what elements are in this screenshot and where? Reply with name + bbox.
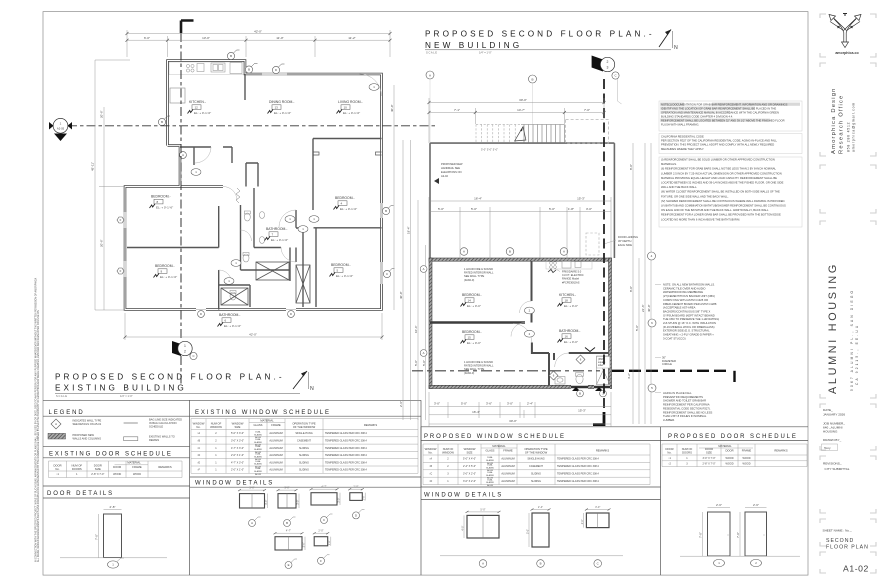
svg-text:2'-0": 2'-0" bbox=[318, 529, 323, 533]
svg-text:B: B bbox=[230, 54, 232, 58]
svg-text:2'-4": 2'-4" bbox=[527, 402, 533, 406]
svg-text:LIVING ROOM.-: LIVING ROOM.- bbox=[338, 100, 363, 104]
fire wall notes bbox=[464, 267, 584, 375]
svg-text:OF THE WINDOW: OF THE WINDOW bbox=[525, 450, 548, 454]
svg-text:5067 ALUMNI PL., SAN DIEGO: 5067 ALUMNI PL., SAN DIEGO bbox=[850, 289, 854, 391]
svg-text:○E: ○E bbox=[197, 461, 201, 464]
svg-text:FRAME: FRAME bbox=[132, 465, 142, 469]
svg-text:THE CBU TO PRESERVE THE 1-HR R: THE CBU TO PRESERVE THE 1-HR RATING) bbox=[663, 317, 719, 321]
svg-text:F: F bbox=[320, 559, 322, 563]
svg-text:2'-6": 2'-6" bbox=[716, 503, 722, 507]
svg-text:NEW BUILDING: NEW BUILDING bbox=[425, 41, 522, 50]
door number ovals bbox=[191, 84, 379, 285]
svg-text:13'-0": 13'-0" bbox=[202, 36, 210, 40]
svg-text:3'-0" X 3'-0": 3'-0" X 3'-0" bbox=[231, 439, 244, 442]
existing plan dimension lines top bbox=[127, 30, 390, 57]
svg-text:1'-0": 1'-0" bbox=[362, 495, 366, 500]
svg-text:Tony: Tony bbox=[824, 446, 831, 450]
svg-text:CITY SUBMITTAL: CITY SUBMITTAL bbox=[825, 467, 850, 471]
svg-text:toilet: toilet bbox=[598, 364, 603, 367]
new plan top dims bbox=[429, 98, 604, 143]
window/door openings in bottom wall bbox=[571, 385, 588, 389]
svg-text:4'-7": 4'-7" bbox=[286, 529, 291, 533]
grid bubbles top bbox=[426, 71, 537, 83]
svg-text:○B: ○B bbox=[197, 439, 201, 442]
svg-text:3'-0": 3'-0" bbox=[507, 402, 513, 406]
svg-text:○A: ○A bbox=[429, 458, 433, 461]
svg-text:EXISTING DOOR SCHEDULE: EXISTING DOOR SCHEDULE bbox=[49, 451, 173, 457]
svg-text:5'-0" 5'-0" 5'-0": 5'-0" 5'-0" 5'-0" bbox=[481, 148, 498, 152]
svg-text:EL: + 0'-0": EL: + 0'-0" bbox=[467, 304, 481, 308]
svg-text:5'-0": 5'-0" bbox=[249, 486, 254, 490]
svg-text:FRAME: FRAME bbox=[271, 423, 281, 427]
svg-text:ALUMINUM: ALUMINUM bbox=[269, 469, 282, 472]
door detail diagram bbox=[60, 505, 167, 568]
svg-text:SIZE: SIZE bbox=[95, 467, 101, 471]
svg-text:1'-8": 1'-8" bbox=[568, 207, 574, 211]
svg-text:5'-0" X 4'-0": 5'-0" X 4'-0" bbox=[463, 458, 476, 461]
north arrow new bbox=[659, 30, 671, 48]
svg-text:B: B bbox=[385, 209, 387, 213]
svg-text:2'-0" X 1'-0": 2'-0" X 1'-0" bbox=[231, 454, 244, 457]
svg-text:MEASURES WHERE THEY APPLY.: MEASURES WHERE THEY APPLY. bbox=[661, 147, 704, 151]
match line existing (vertical centerline x=181) bbox=[172, 21, 197, 387]
svg-text:ON EACH AND OF THE BATHTUB AND: ON EACH AND OF THE BATHTUB AND THE BACK … bbox=[661, 208, 769, 212]
svg-text:2'-0": 2'-0" bbox=[353, 485, 358, 489]
svg-text:SIZE: SIZE bbox=[706, 450, 712, 454]
svg-text:WOOD: WOOD bbox=[742, 457, 750, 460]
svg-text:C: C bbox=[192, 354, 194, 358]
svg-text:SLIDING: SLIDING bbox=[299, 461, 309, 464]
svg-text:LUMBER 2.5 INCH BY 7.25-INCH A: LUMBER 2.5 INCH BY 7.25-INCH ACTUAL DIME… bbox=[661, 171, 782, 175]
svg-text:HANDRAIL SEE: HANDRAIL SEE bbox=[441, 166, 460, 170]
svg-text:13: 13 bbox=[275, 105, 279, 109]
svg-text:B: B bbox=[286, 521, 288, 525]
svg-text:FIBER-CEMENT BOARD PER ASTM C1: FIBER-CEMENT BOARD PER ASTM C1288 bbox=[663, 302, 717, 306]
svg-text:SHEET NAME : No._: SHEET NAME : No._ bbox=[823, 529, 852, 533]
proposed window detail diagrams bbox=[460, 507, 500, 538]
svg-text:1'-0": 1'-0" bbox=[327, 540, 331, 545]
svg-text:A2-02: A2-02 bbox=[441, 174, 448, 178]
new plan room labels bbox=[412, 56, 735, 425]
svg-text:4'-0": 4'-0" bbox=[460, 525, 464, 530]
svg-text:SLIDING: SLIDING bbox=[299, 469, 309, 472]
svg-text:LUMBER.: LUMBER. bbox=[663, 418, 675, 422]
svg-text:5'-0": 5'-0" bbox=[549, 207, 555, 211]
svg-text:A: A bbox=[182, 153, 184, 157]
svg-text:FLUSH WITH WALL FRAMING.: FLUSH WITH WALL FRAMING. bbox=[661, 122, 699, 126]
svg-text:DOORS: DOORS bbox=[72, 467, 82, 471]
svg-text:21'-6": 21'-6" bbox=[641, 304, 645, 312]
svg-text:3'-0": 3'-0" bbox=[301, 542, 305, 547]
svg-text:DOOR: DOOR bbox=[113, 465, 121, 469]
svg-text:SHOWER AND TOILET GRAB BAR: SHOWER AND TOILET GRAB BAR bbox=[663, 399, 706, 403]
svg-text:3: 3 bbox=[607, 66, 609, 70]
svg-text:LOCATED NO MORE THAN 6 INCH AB: LOCATED NO MORE THAN 6 INCH ABOVE THE BA… bbox=[661, 217, 740, 221]
svg-text:TEMPERED GLASS PER CRC 308.4: TEMPERED GLASS PER CRC 308.4 bbox=[325, 461, 367, 464]
svg-text:○C: ○C bbox=[197, 447, 201, 450]
svg-text:CERAMIC TILE OVER AND AUDIO: CERAMIC TILE OVER AND AUDIO bbox=[663, 286, 706, 290]
svg-text:PROPOSED NEW: PROPOSED NEW bbox=[441, 162, 463, 166]
closet notches bedroom 4 bbox=[313, 152, 382, 155]
svg-text:(D/AD-0): (D/AD-0) bbox=[464, 371, 474, 375]
svg-text:EACH SIDE: EACH SIDE bbox=[618, 243, 632, 247]
svg-text:GLAZED: GLAZED bbox=[486, 481, 495, 484]
svg-text:N: N bbox=[674, 45, 678, 51]
svg-text:#FCFE3062AS: #FCFE3062AS bbox=[562, 280, 580, 284]
svg-text:EL: + 0'-1'-6": EL: + 0'-1'-6" bbox=[271, 238, 288, 242]
svg-text:3'-0": 3'-0" bbox=[295, 500, 299, 505]
svg-text:(D/AD-0): (D/AD-0) bbox=[464, 278, 474, 282]
svg-text:SLIDING: SLIDING bbox=[299, 454, 309, 457]
svg-text:(II) REINFORCEMENT FOR GRAB BA: (II) REINFORCEMENT FOR GRAB BARS SHALL N… bbox=[661, 167, 776, 171]
svg-text:DUAL: DUAL bbox=[487, 464, 493, 467]
svg-text:A: A bbox=[423, 351, 425, 355]
svg-text:40'-0": 40'-0" bbox=[647, 304, 651, 312]
svg-text:15: 15 bbox=[468, 335, 472, 339]
horizontal centerline y=126 with section cut symbol bbox=[49, 118, 437, 141]
svg-text:GLAZED: GLAZED bbox=[486, 474, 495, 477]
note highlights bbox=[660, 103, 684, 106]
svg-text:C: C bbox=[386, 272, 388, 276]
svg-text:14'-7": 14'-7" bbox=[517, 108, 525, 112]
svg-text:D: D bbox=[275, 68, 277, 72]
svg-text:No.: No. bbox=[55, 467, 59, 471]
svg-text:WINDOW: WINDOW bbox=[442, 450, 454, 454]
door arcs bbox=[195, 74, 382, 283]
svg-text:BEDROOM.-: BEDROOM.- bbox=[155, 264, 175, 268]
svg-text:MATERIAL: MATERIAL bbox=[260, 418, 274, 422]
svg-text:DOOR: DOOR bbox=[725, 449, 733, 453]
svg-text:10: 10 bbox=[344, 105, 348, 109]
svg-text:GYPSUM BOARD (KEPT INTACT BEHI: GYPSUM BOARD (KEPT INTACT BEHIND bbox=[663, 313, 715, 317]
svg-text:7'-0": 7'-0" bbox=[584, 108, 590, 112]
proposed door detail diagrams bbox=[680, 503, 800, 556]
svg-text:SINGLE-HUNG: SINGLE-HUNG bbox=[527, 458, 544, 461]
title block cell corner marks bbox=[820, 14, 876, 573]
svg-text:GLAZED: GLAZED bbox=[486, 459, 495, 462]
svg-text:TEMPERED GLASS PER CRC 308.4: TEMPERED GLASS PER CRC 308.4 bbox=[325, 469, 367, 472]
svg-text:B: B bbox=[540, 562, 542, 566]
horizontal heavy dashed line y=371 bbox=[412, 370, 600, 372]
svg-text:2: 2 bbox=[607, 60, 609, 64]
svg-text:DINING ROOM.-: DINING ROOM.- bbox=[269, 100, 294, 104]
svg-text:BATHROOM.-: BATHROOM.- bbox=[559, 329, 580, 333]
svg-text:EXISTING BUILDING: EXISTING BUILDING bbox=[55, 384, 187, 393]
svg-text:FRIGIDAIRE 5.0: FRIGIDAIRE 5.0 bbox=[562, 270, 582, 274]
svg-text:11'-2": 11'-2" bbox=[348, 36, 355, 40]
svg-text:MATERIAL PROVIDING EQUAL HEIGH: MATERIAL PROVIDING EQUAL HEIGHT AND LOAD… bbox=[661, 176, 777, 180]
svg-text:B: B bbox=[579, 392, 581, 396]
svg-text:3'-0" X 7'-0": 3'-0" X 7'-0" bbox=[702, 457, 715, 460]
svg-text:○D: ○D bbox=[197, 454, 201, 457]
svg-text:FRAME: FRAME bbox=[503, 449, 513, 453]
svg-text:DUAL: DUAL bbox=[255, 438, 261, 441]
left margin disclaimer text (rotated) bbox=[35, 278, 41, 562]
svg-text:EXISTING WALLS TO: EXISTING WALLS TO bbox=[149, 435, 175, 439]
svg-text:5'-0" X 3'-0": 5'-0" X 3'-0" bbox=[231, 432, 244, 435]
svg-text:42'-0": 42'-0" bbox=[249, 332, 257, 336]
upper floor outline bbox=[430, 143, 614, 258]
svg-text:HOUSING: HOUSING bbox=[823, 429, 838, 433]
svg-text:20'-6": 20'-6" bbox=[100, 239, 104, 247]
kitchen counter band bbox=[169, 62, 244, 75]
svg-text:PREVENTION. THIS PROJECT SHALL: PREVENTION. THIS PROJECT SHALL ADOPT AND… bbox=[661, 143, 774, 147]
svg-text:LEGEND: LEGEND bbox=[49, 410, 85, 416]
svg-text:NOTE(1) DOCUMENTATION FOR GRAB: NOTE(1) DOCUMENTATION FOR GRAB BAR REINF… bbox=[661, 102, 788, 106]
interior walls new plan bbox=[430, 261, 609, 385]
svg-text:TEMPERED GLASS PER CRC 308.4: TEMPERED GLASS PER CRC 308.4 bbox=[557, 465, 599, 468]
svg-text:16'-4": 16'-4" bbox=[472, 410, 480, 414]
svg-text:DUAL: DUAL bbox=[255, 431, 261, 434]
svg-text:CU FT. ELECTRIC: CU FT. ELECTRIC bbox=[562, 273, 584, 277]
svg-text:IDENTIFYING THE LOCATION OF GR: IDENTIFYING THE LOCATION OF GRAB BAR REI… bbox=[661, 106, 776, 110]
svg-text:○D: ○D bbox=[429, 480, 433, 483]
svg-text:Research Office: Research Office bbox=[839, 95, 845, 154]
new plan bottom dims bbox=[429, 392, 611, 427]
check mark on bath wall bbox=[585, 348, 595, 352]
svg-text:MATERIAL: MATERIAL bbox=[492, 444, 506, 448]
svg-text:ALUMINUM: ALUMINUM bbox=[269, 432, 282, 435]
svg-text:EL: + 0'-1'-6": EL: + 0'-1'-6" bbox=[156, 205, 173, 209]
diamond tags bbox=[549, 355, 585, 380]
svg-text:5'-0": 5'-0" bbox=[635, 325, 639, 331]
svg-text:3'-0": 3'-0" bbox=[595, 505, 600, 509]
svg-text:D: D bbox=[290, 312, 292, 316]
stair treads solid (upper run) bbox=[521, 125, 564, 144]
svg-text:14: 14 bbox=[468, 298, 472, 302]
svg-text:○B: ○B bbox=[429, 465, 433, 468]
window tags below bottom wall bbox=[577, 390, 607, 397]
svg-text:1/4" = 1'-0": 1/4" = 1'-0" bbox=[479, 51, 492, 55]
svg-text:4'-7" X 3'-0": 4'-7" X 3'-0" bbox=[231, 447, 244, 450]
existing outer walls (double-line) bbox=[125, 61, 382, 310]
svg-text:ALUM: ALUM bbox=[487, 484, 493, 487]
svg-text:amorphica@gmail.com: amorphica@gmail.com bbox=[852, 102, 856, 152]
svg-text:WOOD: WOOD bbox=[742, 463, 750, 466]
svg-text:B: B bbox=[248, 68, 250, 72]
svg-text:IN BAG CALCULATION: IN BAG CALCULATION bbox=[149, 421, 177, 425]
svg-text:GLAZED: GLAZED bbox=[254, 448, 263, 451]
svg-text:4'-2": 4'-2" bbox=[627, 373, 631, 379]
bathroom fixtures new bbox=[555, 356, 610, 385]
svg-text:ALUMINUM: ALUMINUM bbox=[501, 473, 514, 476]
svg-text:SINGLE-HUNG: SINGLE-HUNG bbox=[295, 432, 312, 435]
svg-text:1/4" = 1'-0": 1/4" = 1'-0" bbox=[120, 394, 133, 398]
svg-text:DATE_: DATE_ bbox=[823, 408, 833, 412]
svg-text:amorphica.co: amorphica.co bbox=[835, 51, 859, 55]
svg-text:REMARKS: REMARKS bbox=[596, 449, 609, 453]
landing dashed rectangle bbox=[566, 120, 609, 144]
svg-text:5'-0": 5'-0" bbox=[422, 360, 426, 366]
svg-text:15'-3": 15'-3" bbox=[577, 197, 585, 201]
svg-text:5'-0": 5'-0" bbox=[461, 402, 467, 406]
new plan right-side dims bbox=[633, 143, 651, 424]
svg-text:RANGE Model: RANGE Model bbox=[562, 277, 579, 281]
interior walls bbox=[127, 74, 382, 310]
svg-text:B: B bbox=[531, 77, 533, 81]
svg-text:5'-0": 5'-0" bbox=[471, 207, 477, 211]
door details section bbox=[43, 485, 190, 487]
svg-text:CASEMENT: CASEMENT bbox=[297, 439, 311, 442]
svg-text:36" DEPTH: 36" DEPTH bbox=[618, 239, 631, 243]
svg-text:GLAZED: GLAZED bbox=[486, 466, 495, 469]
svg-text:WOOD: WOOD bbox=[725, 463, 733, 466]
dwelling hatched walls bbox=[429, 258, 612, 389]
date / job / drawn-by block bbox=[822, 408, 852, 533]
svg-text:20'-6": 20'-6" bbox=[100, 110, 104, 118]
stair treads dashed (lower run) bbox=[476, 125, 521, 144]
svg-text:MATERIALS.: MATERIALS. bbox=[661, 162, 677, 166]
svg-text:SIZE: SIZE bbox=[235, 425, 241, 429]
svg-text:TEMPERED GLASS PER CRC 308.4: TEMPERED GLASS PER CRC 308.4 bbox=[557, 458, 599, 461]
svg-text:EL: + 0'-1'-6": EL: + 0'-1'-6" bbox=[336, 274, 353, 278]
svg-text:DOORS: DOORS bbox=[682, 450, 692, 454]
existing plan dim bottom bbox=[125, 313, 382, 340]
svg-text:BEDROOM.-: BEDROOM.- bbox=[335, 196, 355, 200]
svg-text:SEE WALL TYPE: SEE WALL TYPE bbox=[464, 274, 484, 278]
svg-text:D: D bbox=[355, 514, 357, 518]
svg-text:2x6 STUDS @ 16" O.C. WITH INSU: 2x6 STUDS @ 16" O.C. WITH INSULATION bbox=[663, 321, 716, 325]
svg-text:REINFORCEMENT SHALL BE LOCATED: REINFORCEMENT SHALL BE LOCATED BETWEEN 3… bbox=[661, 118, 785, 122]
svg-text:C: C bbox=[597, 562, 599, 566]
svg-text:(III) WATER CLOSET REINFORCEME: (III) WATER CLOSET REINFORCEMENT SHALL B… bbox=[661, 190, 780, 194]
svg-text:DUAL: DUAL bbox=[255, 453, 261, 456]
stair direction arrow bbox=[515, 127, 526, 141]
svg-text:S C A L E: S C A L E bbox=[56, 394, 67, 398]
svg-text:CASEMENT: CASEMENT bbox=[529, 465, 543, 468]
svg-text:GLASS: GLASS bbox=[254, 423, 263, 427]
svg-text:WINDOW DETAILS: WINDOW DETAILS bbox=[424, 492, 503, 498]
svg-text:B: B bbox=[161, 120, 163, 124]
svg-text:○F: ○F bbox=[197, 469, 201, 472]
svg-text:8'-0": 8'-0" bbox=[629, 164, 633, 170]
svg-text:A: A bbox=[429, 73, 431, 77]
svg-text:4'-7": 4'-7" bbox=[321, 485, 326, 489]
svg-text:TEMPERED GLASS PER CRC 308.4: TEMPERED GLASS PER CRC 308.4 bbox=[325, 447, 367, 450]
svg-text:WATERPROOFING MEMBRANE: WATERPROOFING MEMBRANE bbox=[663, 290, 703, 294]
svg-text:TEMPERED GLASS PER CRC 308.4: TEMPERED GLASS PER CRC 308.4 bbox=[325, 439, 367, 442]
north arrow existing bbox=[293, 371, 307, 389]
svg-text:REVISIONS_: REVISIONS_ bbox=[823, 462, 842, 466]
svg-text:GLAZED: GLAZED bbox=[254, 433, 263, 436]
svg-text:3'-0": 3'-0" bbox=[284, 486, 289, 490]
svg-text:EL: + 0'-1'-6": EL: + 0'-1'-6" bbox=[274, 111, 291, 115]
svg-text:11'-0": 11'-0" bbox=[276, 36, 283, 40]
svg-text:REMARKS: REMARKS bbox=[774, 449, 787, 453]
svg-text:4'-7" X 3'-0": 4'-7" X 3'-0" bbox=[231, 461, 244, 464]
svg-text:BEDROOM.-: BEDROOM.- bbox=[151, 195, 171, 199]
svg-text:7'-0": 7'-0" bbox=[94, 534, 98, 540]
svg-text:A: A bbox=[55, 422, 57, 426]
svg-text:DUAL: DUAL bbox=[255, 445, 261, 448]
svg-text:(V) BATHTUB AND COMBINATION BA: (V) BATHTUB AND COMBINATION BATHTUB/SHOW… bbox=[661, 204, 786, 208]
svg-text:D: D bbox=[200, 312, 202, 316]
svg-text:LOCATED BETWEEN 32 INCHES AND: LOCATED BETWEEN 32 INCHES AND 39-1/4 INC… bbox=[661, 181, 784, 185]
svg-text:WOOD: WOOD bbox=[725, 457, 733, 460]
door arcs new plan bbox=[511, 301, 569, 367]
svg-text:PROPOSED DOOR SCHEDULE: PROPOSED DOOR SCHEDULE bbox=[668, 434, 798, 440]
svg-text:F: F bbox=[120, 218, 122, 222]
svg-text:REMARKS: REMARKS bbox=[158, 465, 171, 469]
svg-text:OPERATION AND MAINTENANCE MANU: OPERATION AND MAINTENANCE MANUAL IN ACCO… bbox=[661, 110, 779, 114]
svg-text:ALUMINUM: ALUMINUM bbox=[269, 454, 282, 457]
kitchen counter new bbox=[546, 260, 592, 270]
svg-text:EL: + 0'-0": EL: + 0'-0" bbox=[564, 304, 578, 308]
svg-text:18: 18 bbox=[565, 298, 569, 302]
svg-text:2'-4": 2'-4" bbox=[538, 505, 543, 509]
svg-text:EL: + 0'-1'-6": EL: + 0'-1'-6" bbox=[194, 111, 211, 115]
svg-text:3'-0" X 2'-0": 3'-0" X 2'-0" bbox=[463, 473, 476, 476]
svg-text:(ACCEPTABLE AST-AREA: (ACCEPTABLE AST-AREA bbox=[663, 306, 696, 310]
svg-text:REINFORCEMENT PER CALIFORNIA: REINFORCEMENT PER CALIFORNIA bbox=[663, 403, 710, 407]
svg-text:ELEVATIONS ON: ELEVATIONS ON bbox=[441, 170, 462, 174]
svg-text:ALUMINUM: ALUMINUM bbox=[501, 465, 514, 468]
svg-text:5'-0": 5'-0" bbox=[414, 360, 418, 366]
svg-text:2'-6": 2'-6" bbox=[399, 401, 403, 407]
svg-text:DUAL: DUAL bbox=[487, 471, 493, 474]
svg-text:RESIDENTIAL CODE SECTION R327): RESIDENTIAL CODE SECTION R327). bbox=[663, 406, 711, 410]
svg-text:16'-4": 16'-4" bbox=[474, 197, 482, 201]
svg-text:3'-0": 3'-0" bbox=[586, 207, 592, 211]
svg-text:12: 12 bbox=[195, 105, 199, 109]
svg-text:2'-8": 2'-8" bbox=[110, 505, 116, 509]
svg-text:8'-0": 8'-0" bbox=[629, 286, 633, 292]
svg-text:2'-8" X 7'-0": 2'-8" X 7'-0" bbox=[91, 473, 104, 476]
svg-text:2'-0" X 1'-0": 2'-0" X 1'-0" bbox=[231, 469, 244, 472]
svg-text:DRAWN BY_: DRAWN BY_ bbox=[823, 438, 842, 442]
svg-text:PREVENTION REQUIREMENTS: PREVENTION REQUIREMENTS bbox=[663, 395, 703, 399]
svg-text:RATED INTERIOR WALL: RATED INTERIOR WALL bbox=[464, 364, 494, 368]
svg-text:3'-0": 3'-0" bbox=[336, 498, 340, 503]
handrail note bbox=[441, 162, 463, 178]
svg-text:ALUMINUM: ALUMINUM bbox=[269, 461, 282, 464]
svg-text:KITCHEN.-: KITCHEN.- bbox=[189, 100, 206, 104]
svg-text:5'-0": 5'-0" bbox=[525, 529, 529, 534]
svg-text:IN CONNECTION WITH THE SPECIFI: IN CONNECTION WITH THE SPECIFIED PROJECT… bbox=[35, 278, 38, 562]
svg-text:7'-0": 7'-0" bbox=[698, 532, 702, 538]
title existing building bbox=[55, 371, 314, 398]
svg-text:F: F bbox=[120, 269, 122, 273]
svg-text:No.: No. bbox=[428, 450, 432, 454]
svg-text:○A: ○A bbox=[197, 432, 201, 435]
svg-text:OF THE WINDOW: OF THE WINDOW bbox=[293, 425, 316, 429]
svg-text:2'-4" X 5'-0": 2'-4" X 5'-0" bbox=[463, 465, 476, 468]
fridge bbox=[230, 63, 242, 74]
svg-text:A: A bbox=[423, 267, 425, 271]
svg-text:3'-6": 3'-6" bbox=[486, 402, 492, 406]
svg-text:TEMPERED GLASS PER CRC 308.4: TEMPERED GLASS PER CRC 308.4 bbox=[557, 473, 599, 476]
svg-text:30'-0": 30'-0" bbox=[519, 98, 527, 102]
svg-text:WALL AND THE BACK WALL.: WALL AND THE BACK WALL. bbox=[661, 185, 697, 189]
svg-text:5'-0": 5'-0" bbox=[438, 207, 444, 211]
kitchen sink bbox=[211, 63, 225, 72]
svg-text:AGING IN PLACE FALL: AGING IN PLACE FALL bbox=[663, 391, 692, 395]
svg-text:FLOOR PLAN: FLOOR PLAN bbox=[826, 545, 869, 551]
svg-text:PROPOSED SECOND FLOOR PLAN.-: PROPOSED SECOND FLOOR PLAN.- bbox=[425, 30, 655, 39]
existing plan dims left bbox=[95, 60, 130, 310]
door landing dashed box bbox=[586, 233, 599, 255]
svg-text:ALUM: ALUM bbox=[255, 473, 261, 476]
svg-text:DUAL: DUAL bbox=[487, 478, 493, 481]
stove burners bbox=[186, 63, 242, 74]
svg-text:THAN 2 BY 8 INCHES IN NOMINAL: THAN 2 BY 8 INCHES IN NOMINAL bbox=[663, 414, 707, 418]
svg-text:○C: ○C bbox=[429, 473, 433, 476]
svg-text:REMAIN: REMAIN bbox=[149, 438, 159, 442]
svg-text:A: A bbox=[482, 562, 484, 566]
svg-text:BEDROOM.-: BEDROOM.- bbox=[331, 263, 351, 267]
legend box bbox=[43, 410, 190, 442]
